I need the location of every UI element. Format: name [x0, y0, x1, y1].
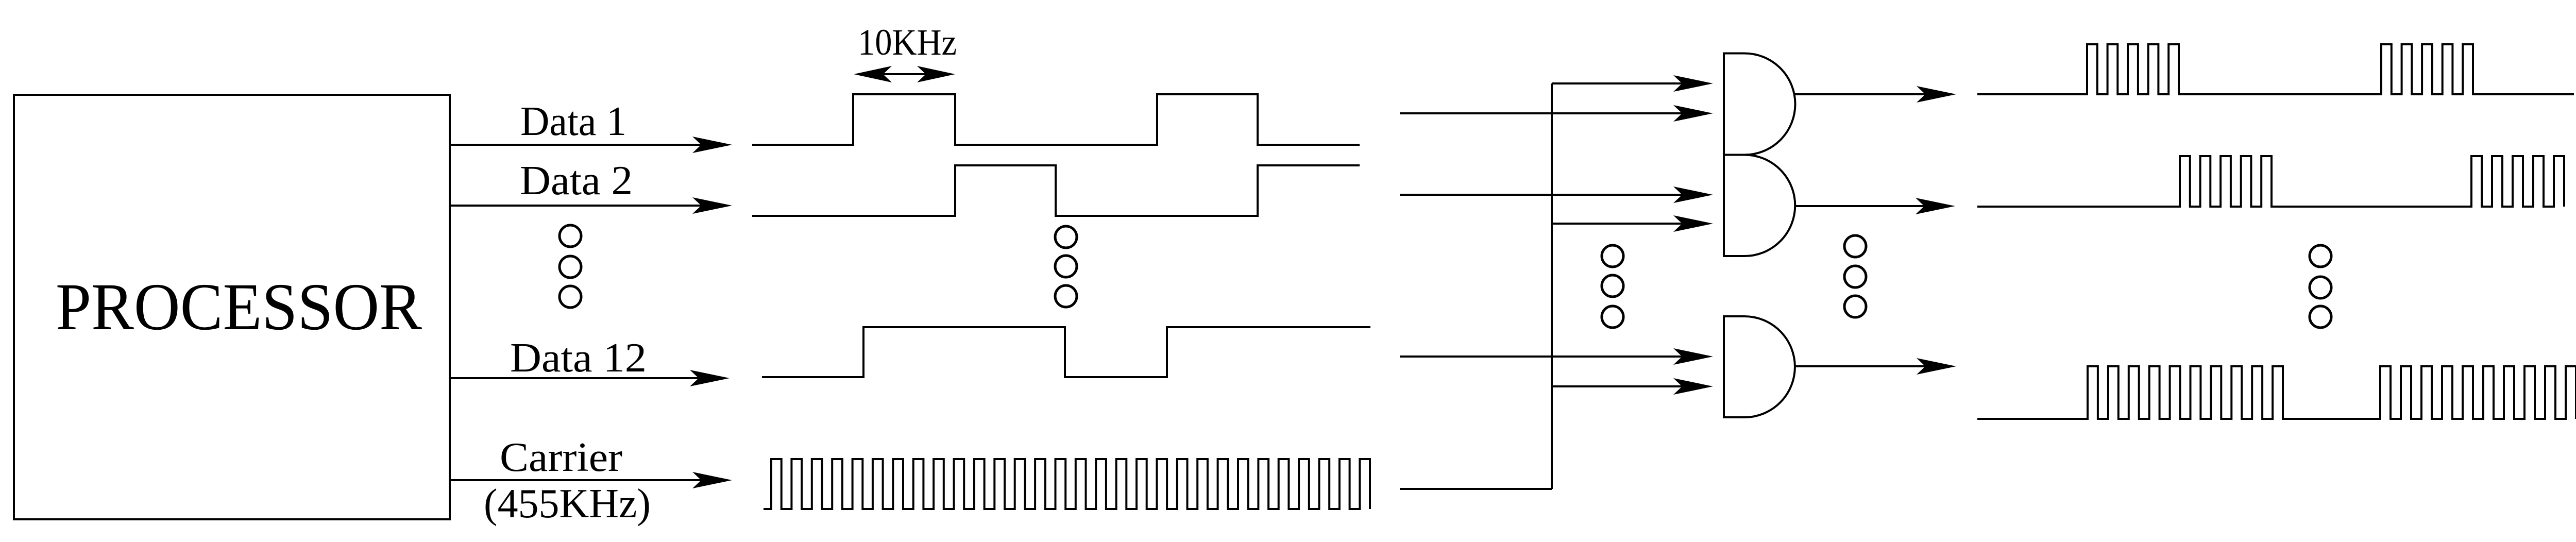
svg-text:(455KHz): (455KHz): [484, 481, 651, 527]
ellipsis dots between Data 2 and Data 12: [560, 225, 581, 308]
svg-text:Data 1: Data 1: [520, 99, 626, 144]
wire Data 12 from processor: [450, 370, 730, 386]
wire Data 1 from processor: [450, 137, 732, 153]
AND gate U4: [1724, 316, 1795, 417]
ellipsis dots between gate input groups: [1602, 245, 1623, 328]
waveform Carrier 455KHz: [764, 459, 1370, 509]
wire Data 2 from processor: [450, 197, 732, 214]
svg-text:Data 2: Data 2: [520, 158, 633, 204]
waveform Data 12: [762, 327, 1370, 377]
waveform Data 1: [752, 94, 1360, 145]
wire Data 1 to gate U2 input B: [1400, 105, 1713, 122]
wire Data 12 to gate U4 input A: [1400, 348, 1713, 365]
svg-text:PROCESSOR: PROCESSOR: [56, 270, 422, 344]
svg-text:Carrier: Carrier: [500, 435, 622, 480]
double-headed arrow 10KHz period: [854, 66, 955, 82]
wire Carrier from processor: [450, 472, 732, 488]
ellipsis dots between output waveforms: [2310, 245, 2331, 328]
wire gate U2 output: [1795, 86, 1956, 103]
ellipsis dots between gate outputs: [1844, 235, 1866, 317]
carrier bus vertical wire: [1551, 83, 1553, 489]
wire Data 2 to gate U3 input A: [1400, 187, 1713, 203]
wire gate U3 output: [1795, 198, 1955, 214]
svg-text:10KHz: 10KHz: [858, 22, 957, 63]
wire carrier bus to gate U2 input A: [1552, 75, 1713, 92]
AND gate U2: [1724, 54, 1795, 155]
wire gate U4 output: [1795, 358, 1956, 375]
waveform Data 2: [752, 165, 1360, 216]
wire carrier waveform to bus: [1400, 488, 1552, 490]
waveform IR2 modulated output: [1977, 156, 2564, 207]
processor box U1: [14, 95, 450, 519]
svg-text:Data 12: Data 12: [510, 335, 647, 381]
waveform IR12 modulated output: [1977, 366, 2576, 419]
wire carrier bus to gate U4 input B: [1552, 378, 1713, 395]
ellipsis dots between waveforms Data 2 and Data 12: [1055, 226, 1077, 307]
waveform IR1 modulated output: [1977, 44, 2574, 94]
AND gate U3: [1724, 155, 1795, 257]
wire carrier bus to gate U3 input B: [1552, 215, 1713, 232]
